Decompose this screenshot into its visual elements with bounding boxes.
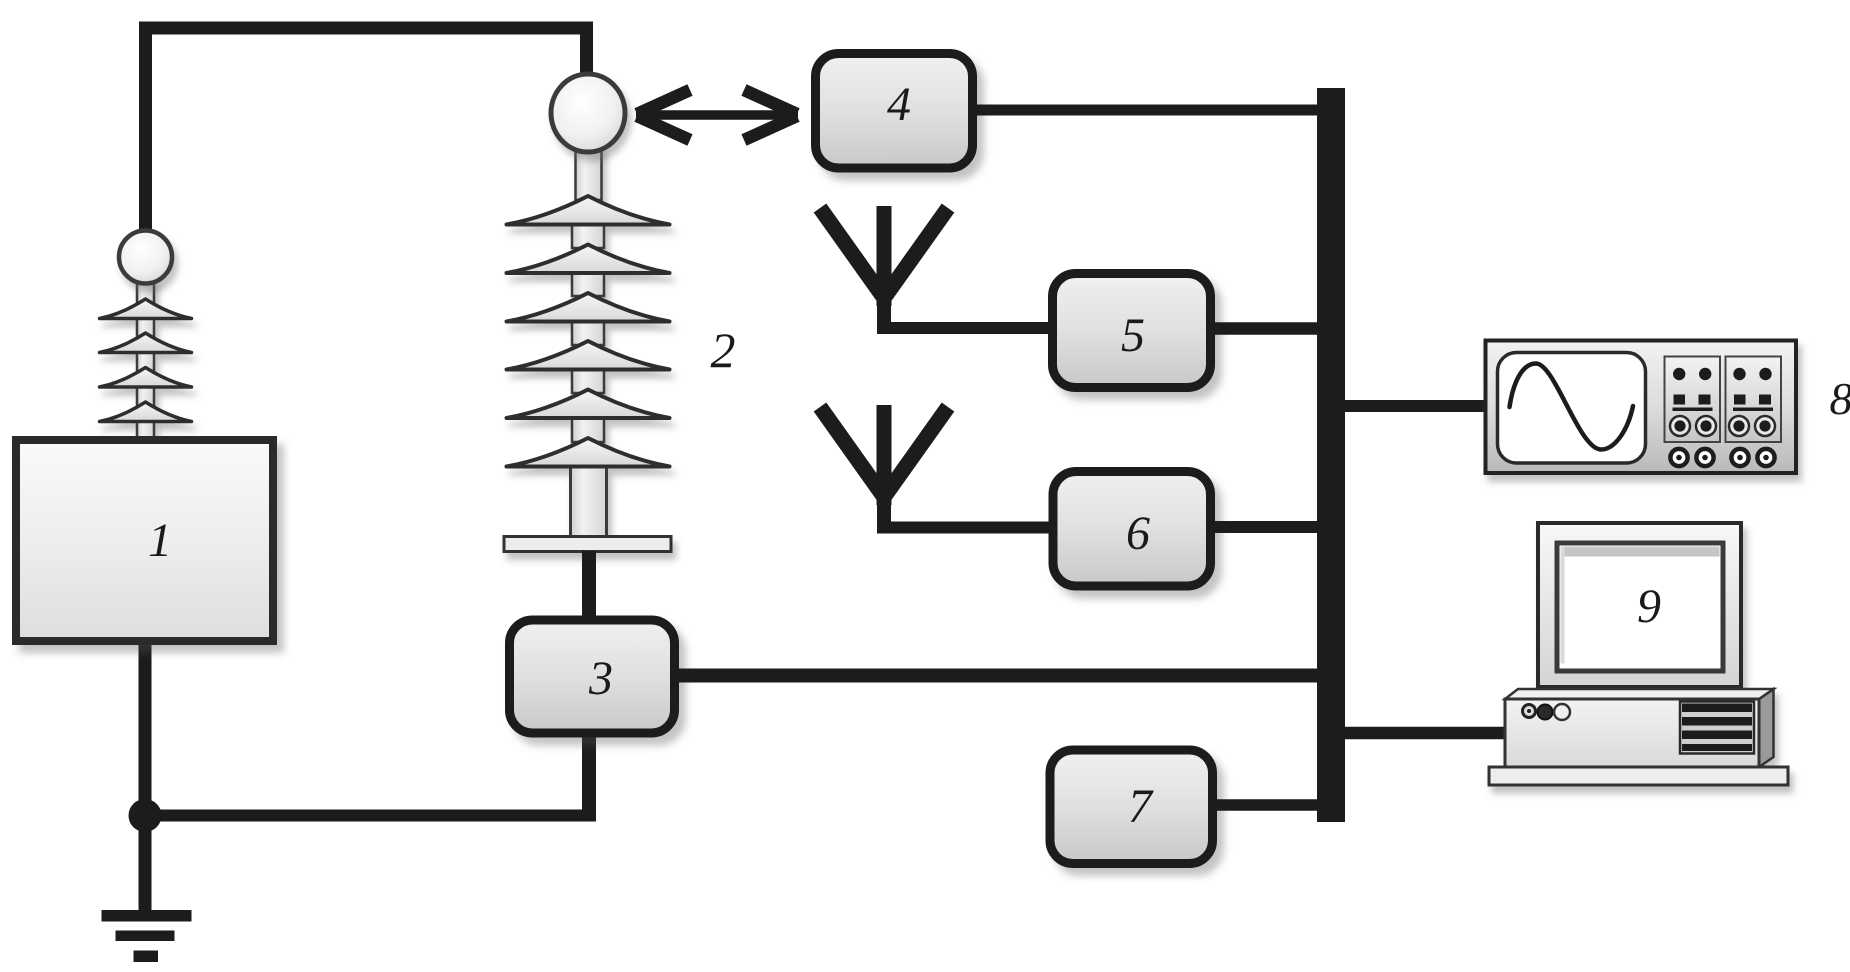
node junction dot (129, 799, 162, 832)
wire antenna B to block 6 (877, 522, 1050, 534)
scope panel 2 (1726, 357, 1782, 443)
sphere electrode top of insulator 2 (551, 74, 625, 152)
oscilloscope 8 (1486, 341, 1797, 474)
block 3 (510, 620, 675, 733)
wire bus to computer 9 (1345, 727, 1506, 740)
wire insulator 2 base to block 3 (582, 551, 596, 620)
svg-text:8: 8 (1830, 373, 1850, 424)
block 7 (1050, 750, 1213, 864)
block 5 (1053, 274, 1211, 388)
sine trace (1510, 364, 1634, 450)
scope panel 1 (1665, 357, 1721, 443)
block 6 (1053, 472, 1211, 587)
wire block 7 to bus (1217, 799, 1330, 811)
wire antenna A to block 5 (877, 322, 1050, 334)
insulator 2 base plate (504, 537, 671, 552)
ground (102, 910, 192, 962)
double arrow between sphere 2 and block 4 (636, 90, 798, 140)
wire bottom from block 1 to ground (139, 645, 152, 910)
svg-text:2: 2 (711, 322, 736, 378)
antenna A (820, 206, 948, 329)
wire bottom horizontal from junction to below block 3 (145, 810, 596, 822)
computer 9 monitor (1538, 523, 1741, 687)
block 1 (16, 440, 273, 641)
wire top loop from block 1 to insulator 2 sphere (146, 28, 587, 235)
svg-text:7: 7 (1128, 780, 1154, 833)
antenna B (820, 405, 948, 528)
svg-text:5: 5 (1121, 309, 1145, 362)
wire block 6 to bus (1215, 521, 1320, 533)
svg-text:3: 3 (588, 652, 613, 705)
scope lower connectors (1670, 449, 1774, 466)
sphere electrode on block 1 insulator (119, 231, 172, 284)
svg-text:1: 1 (148, 514, 172, 567)
svg-text:4: 4 (887, 78, 911, 131)
bus bar (1317, 88, 1345, 822)
case buttons (1523, 705, 1536, 718)
computer 9 case (1489, 689, 1788, 785)
insulator stack on block 1 (100, 231, 192, 441)
wire block 5 to bus (1215, 322, 1320, 335)
block 4 (816, 54, 973, 169)
svg-text:9: 9 (1637, 580, 1661, 633)
wire block 4 to bus (977, 105, 1320, 116)
case vents (1680, 702, 1754, 754)
wire block 3 to bus (679, 669, 1320, 683)
svg-text:6: 6 (1126, 507, 1150, 560)
wire bus to oscilloscope 8 (1345, 400, 1484, 412)
wire below block 3 (582, 737, 596, 816)
insulator 2 column (504, 74, 671, 552)
